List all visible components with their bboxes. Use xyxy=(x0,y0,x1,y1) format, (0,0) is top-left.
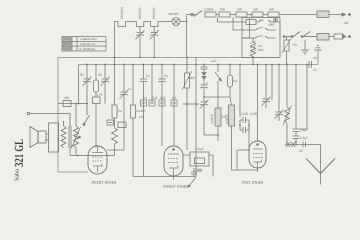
wire: left border vertical xyxy=(57,58,59,173)
capacitor C-heater1 with arrow xyxy=(139,27,141,33)
title Saba 321 GL xyxy=(12,139,26,181)
resistor R-an1 vertical xyxy=(114,65,116,106)
svg-text:Saba: Saba xyxy=(14,169,21,181)
wire: bottom mid bus xyxy=(133,176,196,178)
svg-text:a5pF: a5pF xyxy=(268,23,275,27)
svg-text:RENS 1823d: RENS 1823d xyxy=(92,180,116,185)
wire: v196 xyxy=(195,58,197,177)
label: selector contacts xyxy=(258,18,264,52)
wire: long upper bus y57 xyxy=(58,57,278,59)
svg-text:4Ω: 4Ω xyxy=(344,21,349,25)
svg-text:1W: 1W xyxy=(253,8,258,12)
wire: speaker top line with terminal xyxy=(27,112,30,115)
svg-text:RE1294: RE1294 xyxy=(138,7,142,19)
wire v272 xyxy=(271,65,273,101)
wire: selector box outline xyxy=(242,18,280,58)
speaker coil box xyxy=(38,131,46,143)
node: earth terminal xyxy=(349,36,351,38)
svg-text:RE1264: RE1264 xyxy=(152,7,156,19)
wire: v307 with corner xyxy=(306,65,308,130)
resistor R-rounded xyxy=(229,65,231,76)
resistor R-series small box xyxy=(329,36,334,38)
svg-text:RENS 1294W: RENS 1294W xyxy=(163,184,188,189)
wire: top chain line xyxy=(187,14,197,16)
svg-text:4μF: 4μF xyxy=(211,59,217,63)
wire: heater drop left xyxy=(114,22,116,65)
resistor R-drop4 xyxy=(252,12,263,17)
svg-text:2w400: 2w400 xyxy=(136,109,146,113)
capacitor C-b1 xyxy=(143,65,145,80)
earth arrow xyxy=(320,145,322,174)
label: legend rows xyxy=(79,37,97,51)
wire: bottom left bus xyxy=(58,171,88,173)
transformer T-af box right of V2 xyxy=(190,152,209,166)
svg-text:30: 30 xyxy=(80,73,84,77)
capacitor stack C-o1 C-o2 xyxy=(295,65,297,130)
capacitor C-line (small, on top line) xyxy=(275,17,277,22)
lamp DL (dial lamp, circle with X) xyxy=(169,21,173,23)
wire: tap drops to voltage selector xyxy=(218,17,246,22)
trimmer capacitor CT4 xyxy=(201,101,208,103)
wire: v1 bottom stem xyxy=(97,171,99,173)
capacitor C-k small at left of V1 top xyxy=(107,120,114,125)
svg-text:5n: 5n xyxy=(164,74,168,78)
wire: output line to earth arrow xyxy=(285,144,321,146)
capacitor C-busend at end of bus xyxy=(308,61,310,68)
svg-text:μF: μF xyxy=(299,149,303,153)
resistor R-drop5 xyxy=(268,12,279,17)
node: aerial terminal xyxy=(349,14,351,16)
svg-text:2×05: 2×05 xyxy=(241,112,248,116)
svg-text:0,25W: 0,25W xyxy=(204,8,213,12)
resistor R-zig zigzag xyxy=(112,128,118,144)
svg-text:0,1: 0,1 xyxy=(172,96,177,100)
svg-text:2μ5: 2μ5 xyxy=(152,96,158,100)
svg-text:450: 450 xyxy=(64,96,70,100)
resistor small R-g2 xyxy=(118,122,126,128)
tube V2 electrodes xyxy=(173,149,175,151)
switch S3 tone xyxy=(84,115,90,124)
wire xyxy=(216,14,219,16)
svg-text:st. Wirkung: st. Wirkung xyxy=(79,47,95,51)
svg-text:04: 04 xyxy=(260,34,264,38)
trimmer capacitor CT5 xyxy=(265,65,267,100)
tube V2 RENS1294 envelope xyxy=(164,146,183,176)
capacitor C-heater2 with arrow xyxy=(153,27,155,33)
svg-text:175: 175 xyxy=(97,93,103,97)
trimmer capacitor CT2 xyxy=(104,65,106,80)
wire: small h-link row y104 xyxy=(183,103,199,105)
label: tube names (rotated 180) xyxy=(92,180,263,189)
resistor R-drop1 xyxy=(205,12,216,17)
svg-text:1F: 1F xyxy=(313,68,317,72)
svg-text:0,1: 0,1 xyxy=(143,96,148,100)
ground: chassis near selector xyxy=(304,40,306,50)
output transformer frame xyxy=(49,123,59,152)
wire: right collector of contact rows xyxy=(279,22,281,38)
tube V3 RENS1264 envelope xyxy=(249,141,266,168)
svg-text:0,1μF: 0,1μF xyxy=(300,136,308,140)
capacitor pair C-if1 xyxy=(242,117,244,123)
capacitor C-b2 xyxy=(161,65,163,80)
svg-text:0,3: 0,3 xyxy=(233,79,238,83)
wire with arrow to terminal xyxy=(329,14,345,16)
svg-text:±8: ±8 xyxy=(313,56,317,60)
wire: heater line with valve-socket dips xyxy=(115,22,169,27)
svg-text:47k: 47k xyxy=(292,43,298,47)
svg-text:0,1μF: 0,1μF xyxy=(196,147,204,151)
ground: chassis on bus end riser xyxy=(317,50,319,65)
svg-text:DX: DX xyxy=(260,18,264,22)
wire: v3 anode riser xyxy=(257,65,259,142)
IF coil LB (hatched) xyxy=(230,97,232,105)
coupling row under tuner: small boxed caps xyxy=(141,100,178,106)
wire v240 xyxy=(239,65,241,118)
wire: left feed line y103 xyxy=(58,103,87,105)
svg-text:2μ5: 2μ5 xyxy=(160,96,166,100)
svg-text:0,0005: 0,0005 xyxy=(210,114,214,124)
label: IF values xyxy=(64,59,308,173)
capacitor C-row2 xyxy=(149,100,155,106)
inductor L-ant1 (hatched) xyxy=(317,11,329,18)
resistor R-grid box xyxy=(93,97,101,104)
wire: main component bus y64 xyxy=(79,64,319,66)
svg-text:o.Band 15m: o.Band 15m xyxy=(80,37,97,41)
svg-text:1n: 1n xyxy=(128,87,132,91)
label: tube heater pin labels xyxy=(120,7,179,19)
resistor R-an2 vertical xyxy=(132,65,134,106)
capacitor C-row1 xyxy=(141,100,147,106)
wire: link row y97 xyxy=(204,96,230,98)
contact row 110V xyxy=(242,36,276,38)
capacitor C-300 near switch xyxy=(193,168,195,172)
trimmer capacitor CT6 xyxy=(278,65,280,113)
resistor R-drop2 xyxy=(219,12,230,17)
contact row 240V xyxy=(256,20,280,22)
IF coil LA (hatched) xyxy=(217,97,219,108)
label: dropper values xyxy=(204,8,275,27)
transformer core bars xyxy=(68,126,70,148)
svg-text:2×05: 2×05 xyxy=(250,112,257,116)
switch S4 xyxy=(189,177,196,186)
svg-text:30: 30 xyxy=(98,73,102,77)
svg-text:-50: -50 xyxy=(221,115,226,119)
wire: v152 xyxy=(151,65,153,104)
potentiometer R-47k vertical with arrow xyxy=(286,37,288,41)
wire: bus left drop xyxy=(78,65,80,104)
svg-text:w.Band 1st: w.Band 1st xyxy=(80,42,95,46)
svg-text:2w: 2w xyxy=(118,109,123,113)
choke Dr zigzag xyxy=(251,42,256,57)
capacitor C-out small xyxy=(302,142,304,148)
capacitor pair C-if2 xyxy=(242,127,244,133)
svg-text:5000: 5000 xyxy=(188,76,195,80)
svg-text:321 GL: 321 GL xyxy=(12,139,26,167)
coil L-osc small xyxy=(95,65,97,81)
svg-text:2W: 2W xyxy=(237,8,242,12)
svg-text:RENS 1264: RENS 1264 xyxy=(241,180,263,185)
svg-text:2W: 2W xyxy=(220,8,225,12)
variable inductor L-var zigzag with arrow xyxy=(286,65,288,108)
legend table frame xyxy=(62,37,106,52)
svg-text:5W: 5W xyxy=(269,8,274,12)
wire: lower speaker bus xyxy=(69,148,71,156)
switch S1 mains xyxy=(194,11,202,17)
capacitor C-row4 xyxy=(171,100,177,106)
tube V1 electrodes xyxy=(92,152,103,154)
svg-text:0,1μF: 0,1μF xyxy=(300,128,308,132)
node: mains terminal xyxy=(191,13,194,16)
label: top-right xyxy=(292,21,349,72)
trimmer capacitor CT1 xyxy=(86,65,88,80)
capacitor C-row3 xyxy=(159,100,165,106)
wire: riser to dropper chain xyxy=(186,15,188,58)
svg-text:ZWE: ZWE xyxy=(195,168,202,172)
loudspeaker cone xyxy=(30,127,38,148)
wire: anode riser of middle tube xyxy=(173,65,175,147)
capacitor C-det stack xyxy=(203,65,205,68)
tube V1 RENS1823d envelope xyxy=(88,146,107,174)
switch S-if diagonal xyxy=(217,65,219,73)
inductor L-ant2 (hatched) xyxy=(317,34,329,41)
potentiometer R-5000 xyxy=(186,58,188,74)
svg-text:450/365: 450/365 xyxy=(168,12,179,16)
resistor R-450 box on feed xyxy=(63,101,71,107)
resistor R-sel small box xyxy=(246,20,256,25)
switch S2 (wave change, two poles) xyxy=(284,36,291,38)
svg-text:5n: 5n xyxy=(146,74,150,78)
contact row 220V xyxy=(242,28,276,30)
tube V3 electrodes xyxy=(257,144,259,146)
svg-text:RES964: RES964 xyxy=(120,7,124,19)
svg-text:±40: ±40 xyxy=(139,115,145,119)
resistor R-drop3 xyxy=(236,12,247,17)
transformer winding zigzag secondary xyxy=(61,126,66,148)
wire: v3 bottom link xyxy=(237,149,249,151)
trimmer capacitor CT3 xyxy=(123,65,125,93)
transformer winding zigzag primary xyxy=(74,126,79,148)
svg-text:80Ω: 80Ω xyxy=(258,48,264,52)
svg-text:0Y: 0Y xyxy=(260,26,264,30)
